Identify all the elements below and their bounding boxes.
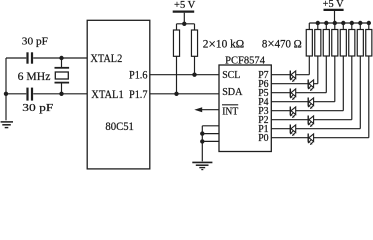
pin label INT with overline <box>222 105 239 118</box>
pin label P1.6 <box>129 70 148 82</box>
pin label XTAL2 <box>90 51 122 65</box>
label: 2×10 kΩ (pull-up value) <box>203 36 245 51</box>
pin label SDA <box>222 87 243 98</box>
svg-text:+5 V: +5 V <box>174 0 196 11</box>
ground (left, below crystal rail) <box>1 122 13 128</box>
wire: INT output with left arrow <box>194 107 219 112</box>
wire: P0 row from PCF8574 through LED up to resistor <box>271 56 369 138</box>
label: 30 pF (C2 value) <box>22 102 53 114</box>
node: rail junction for resistor 4 <box>333 21 337 25</box>
wire: +5V rail over resistor bank <box>309 23 369 30</box>
resistor R7 470 (for LED on P3) <box>340 30 346 57</box>
pin label P4 <box>258 97 268 108</box>
svg-text:XTAL2: XTAL2 <box>90 51 122 65</box>
ground (below PCF8574 address pins) <box>192 162 212 169</box>
node: rail junction for resistor 5 <box>341 21 345 25</box>
svg-text:INT: INT <box>222 107 239 118</box>
svg-text:6 MHz: 6 MHz <box>18 71 51 83</box>
node: R2/SCL junction <box>192 73 196 77</box>
IC U2: PCF8574 box <box>219 65 271 152</box>
resistor R1 10k (pull-up, left) <box>173 30 179 56</box>
node: R1/SDA junction <box>174 92 178 96</box>
svg-text:P1.6: P1.6 <box>129 70 148 82</box>
pin label XTAL1 <box>91 87 123 101</box>
node: rail junction for resistor 2 <box>316 21 320 25</box>
LED D1 (on P7) <box>290 71 296 82</box>
svg-text:30 pF: 30 pF <box>22 102 53 114</box>
LED D3 (on P5) <box>290 89 296 100</box>
wire: P1.6 to SCL <box>150 74 219 76</box>
wire: P1 row from PCF8574 through LED up to resistor <box>271 56 360 129</box>
pin label P3 <box>258 106 268 117</box>
LED D4 (on P4) <box>308 98 314 109</box>
svg-text:8×470 Ω: 8×470 Ω <box>262 36 302 51</box>
wire: P3 row from PCF8574 through LED up to resistor <box>271 56 343 111</box>
svg-text:P1.7: P1.7 <box>129 89 148 101</box>
wire: P2 row from PCF8574 through LED up to resistor <box>271 56 352 120</box>
svg-text:P0: P0 <box>258 133 268 144</box>
pin label SCL <box>222 70 240 81</box>
node: +5V tee junction <box>182 22 186 26</box>
node: crystal bottom junction on XTAL1 wire <box>59 92 63 96</box>
power +5 V supply (left) <box>173 0 196 24</box>
pin label P1 <box>258 124 268 135</box>
label: 80C51 (IC name) <box>105 119 133 133</box>
pin label P1.7 <box>129 89 148 101</box>
pin label P0 <box>258 133 268 144</box>
LED D6 (on P2) <box>308 116 314 127</box>
LED D7 (on P1) <box>290 125 296 136</box>
power +5 V supply (right) <box>323 0 345 23</box>
label: PCF8574 (IC name) <box>225 54 265 66</box>
node: A1 junction <box>200 131 204 135</box>
label: 6 MHz (crystal value) <box>18 71 51 83</box>
resistor R3 470 (for LED on P7) <box>306 30 312 57</box>
label: 8×470 Ω (LED resistor value) <box>262 36 302 51</box>
IC U1: 80C51 box <box>87 20 150 169</box>
node: rail junction for resistor 3 <box>324 21 328 25</box>
resistor R5 470 (for LED on P5) <box>323 30 329 57</box>
svg-text:80C51: 80C51 <box>105 119 133 133</box>
resistor R9 470 (for LED on P1) <box>357 30 363 57</box>
label: 30 pF (C1 value) <box>22 36 48 48</box>
resistor R4 470 (for LED on P6) <box>315 30 321 57</box>
wire: tee to both pull-up resistors <box>177 24 195 30</box>
svg-text:SDA: SDA <box>222 87 243 98</box>
resistor R10 470 (for LED on P0) <box>366 30 372 57</box>
node: crystal top junction on XTAL2 wire <box>59 56 63 60</box>
resistor R2 10k (pull-up, right) <box>191 30 197 56</box>
svg-text:+5 V: +5 V <box>323 0 345 10</box>
pin label P7 <box>258 70 268 81</box>
LED D8 (on P0) <box>308 134 314 145</box>
capacitor C2 30 pF (bottom) <box>6 88 88 101</box>
svg-text:SCL: SCL <box>222 70 240 81</box>
pin label P5 <box>258 88 268 99</box>
wire: P7 row from PCF8574 through LED up to resistor <box>271 56 309 75</box>
pin label P6 <box>258 79 268 90</box>
crystal Y1 6 MHz <box>55 58 70 94</box>
svg-text:30 pF: 30 pF <box>22 36 48 48</box>
resistor R6 470 (for LED on P4) <box>332 30 338 57</box>
wire: left vertical rail <box>5 58 7 120</box>
LED D5 (on P3) <box>290 107 296 118</box>
wire: A0/A1/A2 address pins tied together <box>202 126 219 162</box>
node: rail junction for resistor 8 <box>367 21 371 25</box>
wire: P6 row from PCF8574 through LED up to resistor <box>271 56 318 84</box>
svg-text:2×10 kΩ: 2×10 kΩ <box>203 36 245 51</box>
LED D2 (on P6) <box>308 80 314 91</box>
capacitor C1 30 pF (top) <box>6 52 88 63</box>
pin label P2 <box>258 115 268 126</box>
wire: P4 row from PCF8574 through LED up to resistor <box>271 56 335 102</box>
svg-text:PCF8574: PCF8574 <box>225 54 265 66</box>
wire: R1 down to SDA line (crosses SCL) <box>176 56 178 94</box>
wire: P1.7 to SDA <box>150 93 219 95</box>
node: rail junction for resistor 6 <box>350 21 354 25</box>
svg-text:XTAL1: XTAL1 <box>91 87 123 101</box>
node: A2 junction <box>200 139 204 143</box>
resistor R8 470 (for LED on P2) <box>349 30 355 57</box>
wire: R2 down to SCL line <box>194 56 196 74</box>
node: rail junction for resistor 7 <box>358 21 362 25</box>
node: junction of C2 wire with ground rail <box>4 92 8 96</box>
wire: P5 row from PCF8574 through LED up to resistor <box>271 56 326 93</box>
